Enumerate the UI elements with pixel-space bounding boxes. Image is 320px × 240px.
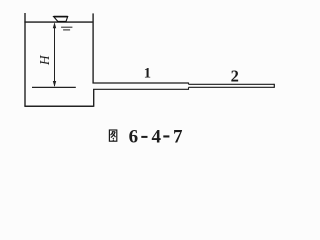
free-surface symbol (inverted trapezoid) <box>54 17 68 22</box>
contraction step top <box>188 83 190 85</box>
pipe 2 bottom wall <box>189 86 275 88</box>
contraction step bottom <box>188 87 190 90</box>
pipe 1 top wall <box>93 82 189 84</box>
svg-text:6: 6 <box>129 126 139 147</box>
tank right wall <box>92 13 94 83</box>
svg-text:4: 4 <box>152 126 162 147</box>
surface mark upper dash <box>61 26 72 28</box>
svg-text:2: 2 <box>231 66 239 85</box>
dimension arrowhead up <box>53 22 56 28</box>
tank bottom <box>24 105 93 107</box>
pipe 1 bottom wall <box>93 88 188 90</box>
caption dash 2 <box>163 135 169 137</box>
pipe 2 top wall <box>189 83 275 85</box>
caption character 图 (drawn) <box>109 130 116 141</box>
free-surface symbol thick top bar <box>54 16 68 18</box>
caption dash 1 <box>141 136 147 138</box>
datum line (pipe axis level inside tank) <box>32 86 76 88</box>
dimension H line <box>54 24 56 87</box>
water surface line <box>24 21 93 23</box>
tank left wall <box>24 13 26 106</box>
svg-text:H: H <box>37 54 52 66</box>
dimension arrowhead down <box>53 81 56 87</box>
svg-text:1: 1 <box>144 65 151 81</box>
pipe 2 end cap <box>273 84 275 88</box>
riser from tank bottom to pipe bottom <box>93 89 95 107</box>
svg-text:7: 7 <box>173 126 183 147</box>
surface mark lower dash <box>63 29 70 31</box>
